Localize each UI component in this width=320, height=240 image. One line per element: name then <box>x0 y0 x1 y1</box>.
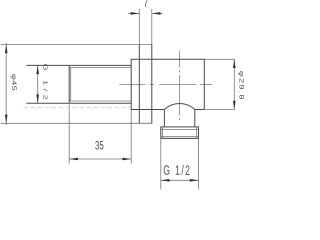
svg-text:35: 35 <box>95 140 104 153</box>
svg-text:φ45: φ45 <box>10 74 17 92</box>
svg-text:G 1/2: G 1/2 <box>42 64 49 103</box>
svg-text:φ29.8: φ29.8 <box>238 71 245 101</box>
svg-text:G 1/2: G 1/2 <box>163 164 191 178</box>
svg-text:7: 7 <box>144 0 149 10</box>
